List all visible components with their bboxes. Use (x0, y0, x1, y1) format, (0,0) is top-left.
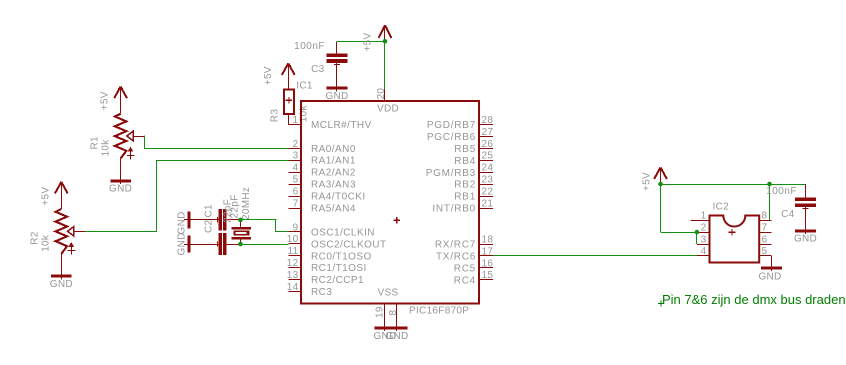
wire and ground at IC2 pin 5 (771, 256, 773, 271)
pin 27 PGC/RB6 of IC1 (479, 136, 493, 138)
pin 16 RC5 of IC1 (479, 267, 493, 269)
svg-text:GND: GND (758, 272, 781, 283)
wire crystal to OSC2 pin 10 (241, 244, 289, 246)
+5V supply above VDD (379, 25, 392, 38)
svg-text:12: 12 (287, 258, 299, 269)
svg-text:21: 21 (482, 199, 494, 210)
svg-text:RC5: RC5 (454, 263, 476, 274)
capacitor C2 22pF (184, 244, 218, 246)
svg-text:4: 4 (701, 246, 707, 257)
wire junction down to IC2 pin 8 (769, 184, 771, 220)
svg-text:VDD: VDD (377, 104, 399, 115)
wire from R2 bottom to ground (61, 254, 63, 279)
svg-text:100nF: 100nF (766, 186, 797, 197)
svg-text:+5V: +5V (40, 187, 51, 206)
svg-text:OSC2/CLKOUT: OSC2/CLKOUT (311, 239, 387, 250)
svg-text:15: 15 (482, 270, 494, 281)
pin 25 RB4 of IC1 (479, 160, 493, 162)
ground for C1 (188, 211, 191, 228)
crystal Q1 20MHz (240, 220, 242, 227)
pin 2 RA0/AN0 of IC1 (289, 148, 302, 150)
svg-text:3: 3 (701, 234, 707, 245)
pin 24 PGM/RB3 of IC1 (479, 172, 493, 174)
pin 6 of IC2 (759, 244, 771, 246)
op IC2 8-pin driver body (710, 216, 760, 263)
svg-text:PGM/RB3: PGM/RB3 (426, 168, 476, 179)
pin 19 VSS stub and ground (384, 304, 386, 332)
pin 23 RB2 of IC1 (479, 184, 493, 186)
svg-text:14: 14 (287, 282, 299, 293)
svg-text:100nF: 100nF (294, 41, 325, 52)
potentiometer R1 10k (115, 114, 127, 159)
svg-text:RC2/CCP1: RC2/CCP1 (311, 275, 364, 286)
wire from R1 bottom to ground (120, 159, 122, 185)
svg-text:5: 5 (293, 175, 299, 186)
svg-text:11: 11 (288, 246, 299, 257)
+5V supply for R2 (55, 182, 68, 194)
svg-text:10: 10 (287, 234, 299, 245)
svg-text:RA1/AN1: RA1/AN1 (311, 156, 356, 167)
svg-text:28: 28 (482, 115, 494, 126)
pin 11 RC0/T1OSO of IC1 (289, 255, 302, 257)
wire +5V down to IC2 pins 2,3 (660, 184, 662, 232)
pin 3 of IC2 (697, 244, 710, 246)
svg-text:RA0/AN0: RA0/AN0 (311, 144, 356, 155)
ground below C3 (327, 87, 348, 90)
svg-text:RA3/AN3: RA3/AN3 (311, 180, 356, 191)
svg-text:GND: GND (177, 211, 188, 234)
pin 4 of IC2 (697, 255, 710, 257)
svg-text:GND: GND (794, 234, 817, 245)
svg-text:RB5: RB5 (454, 144, 476, 155)
ground for C2 (188, 236, 191, 253)
svg-text:IC1: IC1 (296, 80, 313, 91)
pin 1 MCLR#/THV of IC1 (289, 124, 302, 126)
wire R3 to MCLR (pin1) (288, 114, 290, 125)
svg-text:GND: GND (50, 279, 73, 290)
pin 13 RC2/CCP1 of IC1 (289, 279, 302, 281)
node junction +5V IC2 (658, 182, 663, 187)
svg-text:+5V: +5V (263, 66, 274, 85)
+5V supply for R3 (282, 63, 295, 75)
svg-text:RC0/T1OSO: RC0/T1OSO (311, 251, 372, 262)
svg-text:OSC1/CLKIN: OSC1/CLKIN (311, 227, 375, 238)
node junction +5V/C3/VDD (383, 39, 388, 44)
svg-text:GND: GND (177, 232, 188, 255)
pin 4 RA2/AN2 of IC1 (289, 172, 302, 174)
svg-text:RA4/T0CKI: RA4/T0CKI (311, 192, 366, 203)
svg-text:16: 16 (482, 258, 494, 269)
svg-text:C4: C4 (781, 209, 795, 220)
svg-text:INT/RB0: INT/RB0 (432, 204, 476, 215)
node junction crystal bottom (238, 242, 243, 247)
potentiometer R2 10k (56, 209, 68, 254)
svg-text:8: 8 (388, 310, 399, 316)
pin 10 OSC2/CLKOUT of IC1 (289, 243, 302, 245)
svg-text:TX/RC6: TX/RC6 (436, 251, 476, 262)
svg-text:GND: GND (109, 184, 132, 195)
pin 12 RC1/T1OSI of IC1 (289, 267, 302, 269)
svg-text:13: 13 (287, 270, 299, 281)
svg-text:17: 17 (482, 246, 494, 257)
svg-text:1: 1 (701, 211, 707, 222)
svg-text:C2: C2 (204, 219, 215, 233)
svg-text:PIC16F870P: PIC16F870P (409, 306, 469, 317)
svg-text:C1: C1 (204, 204, 215, 218)
svg-text:RB4: RB4 (454, 156, 476, 167)
pin 8 VSS stub and ground (396, 304, 398, 332)
svg-text:6: 6 (293, 187, 299, 198)
svg-text:22: 22 (482, 187, 494, 198)
svg-text:RB1: RB1 (454, 192, 476, 203)
svg-text:2: 2 (701, 222, 707, 233)
pin 5 of IC2 (759, 255, 771, 257)
svg-text:RC1/T1OSI: RC1/T1OSI (311, 263, 367, 274)
wire IC2 pin2 to pin3 (696, 232, 698, 244)
svg-text:3: 3 (293, 151, 299, 162)
pin 3 RA1/AN1 of IC1 (289, 160, 302, 162)
wire R1 wiper to RA0 (pin2) (144, 135, 146, 148)
pin 26 RB5 of IC1 (479, 148, 493, 150)
svg-text:10k: 10k (41, 234, 52, 252)
svg-text:23: 23 (482, 175, 494, 186)
svg-text:RB2: RB2 (454, 180, 476, 191)
svg-text:MCLR#/THV: MCLR#/THV (311, 120, 372, 131)
svg-text:IC2: IC2 (713, 201, 730, 212)
note origin cross (658, 301, 664, 307)
resistor R3 10k (284, 89, 294, 114)
pin 7 RA5/AN4 of IC1 (289, 208, 302, 210)
pin 22 RB1 of IC1 (479, 196, 493, 198)
wire C3 to +5V junction (337, 41, 385, 43)
svg-text:Pin 7&6 zijn de dmx bus draden: Pin 7&6 zijn de dmx bus draden (662, 292, 846, 307)
pin 5 RA3/AN3 of IC1 (289, 184, 302, 186)
ground below C4 (795, 230, 816, 233)
pin 18 RX/RC7 of IC1 (479, 244, 493, 246)
svg-text:VSS: VSS (378, 288, 399, 299)
svg-text:10k: 10k (298, 104, 309, 122)
pin 9 OSC1/CLKIN of IC1 (289, 231, 302, 233)
svg-text:8: 8 (762, 211, 768, 222)
svg-text:PGD/RB7: PGD/RB7 (427, 120, 476, 131)
svg-text:24: 24 (482, 163, 494, 174)
pin 14 RC3 of IC1 (289, 291, 302, 293)
op IC1 PIC16F870P microcontroller body (301, 101, 479, 304)
svg-text:R2: R2 (30, 231, 41, 245)
svg-text:7: 7 (293, 198, 299, 209)
svg-text:2: 2 (293, 139, 299, 150)
svg-text:10k: 10k (101, 139, 112, 157)
svg-text:18: 18 (482, 234, 494, 245)
svg-text:4: 4 (293, 163, 299, 174)
svg-text:1: 1 (293, 115, 299, 126)
svg-text:RA2/AN2: RA2/AN2 (311, 168, 356, 179)
svg-text:R1: R1 (90, 136, 101, 150)
pin 8 of IC2 (759, 220, 771, 222)
capacitor C1 22pF (184, 219, 218, 221)
ground below R2 (51, 275, 72, 278)
svg-text:27: 27 (482, 127, 494, 138)
svg-text:RA5/AN4: RA5/AN4 (311, 204, 356, 215)
svg-text:+5V: +5V (642, 172, 653, 191)
pin 2 of IC2 (697, 232, 710, 234)
wire R2 wiper to RA1 (pin3) (85, 231, 157, 233)
node junction C4 feed (767, 182, 772, 187)
pin 21 INT/RB0 of IC1 (479, 208, 493, 210)
svg-text:R3: R3 (270, 109, 281, 123)
capacitor C3 100nF (336, 41, 338, 53)
svg-text:19: 19 (375, 306, 386, 318)
svg-text:C3: C3 (311, 64, 325, 75)
pin 15 RC4 of IC1 (479, 279, 493, 281)
junction at IC2 pins 2-3 (695, 230, 700, 235)
svg-text:26: 26 (482, 139, 494, 150)
wire crystal to OSC1 pin 9 (241, 219, 277, 221)
svg-text:25: 25 (482, 151, 494, 162)
pin 17 TX/RC6 of IC1 (479, 255, 493, 257)
+5V supply for R1 (114, 87, 127, 99)
pin 1 of IC2 (691, 220, 710, 222)
svg-text:20MHz: 20MHz (241, 187, 252, 220)
svg-text:5: 5 (762, 246, 768, 257)
svg-text:9: 9 (293, 222, 299, 233)
svg-text:7: 7 (762, 222, 768, 233)
wire TX/RC6 pin17 to IC2 pin4 (493, 255, 697, 257)
wire +5V to C4 (661, 184, 806, 186)
svg-text:20: 20 (376, 88, 387, 100)
svg-text:+5V: +5V (363, 32, 374, 51)
capacitor C4 100nF (805, 184, 807, 198)
pin 28 PGD/RB7 of IC1 (479, 124, 493, 126)
svg-text:GND: GND (385, 331, 408, 342)
svg-text:22pF: 22pF (223, 199, 234, 223)
pin 7 of IC2 (759, 232, 771, 234)
svg-text:RC4: RC4 (454, 275, 476, 286)
svg-text:6: 6 (762, 234, 768, 245)
wire +5V junction to VDD pin 20 (384, 41, 386, 89)
pin 20 VDD stub (384, 89, 386, 101)
pin 6 RA4/T0CKI of IC1 (289, 196, 302, 198)
ground below R1 (110, 180, 131, 183)
svg-text:+5V: +5V (100, 91, 111, 110)
svg-text:RX/RC7: RX/RC7 (435, 240, 476, 251)
+5V supply for IC2 (654, 167, 667, 179)
node junction crystal top (238, 218, 243, 223)
svg-text:PGC/RB6: PGC/RB6 (427, 132, 476, 143)
svg-text:RC3: RC3 (311, 287, 332, 298)
